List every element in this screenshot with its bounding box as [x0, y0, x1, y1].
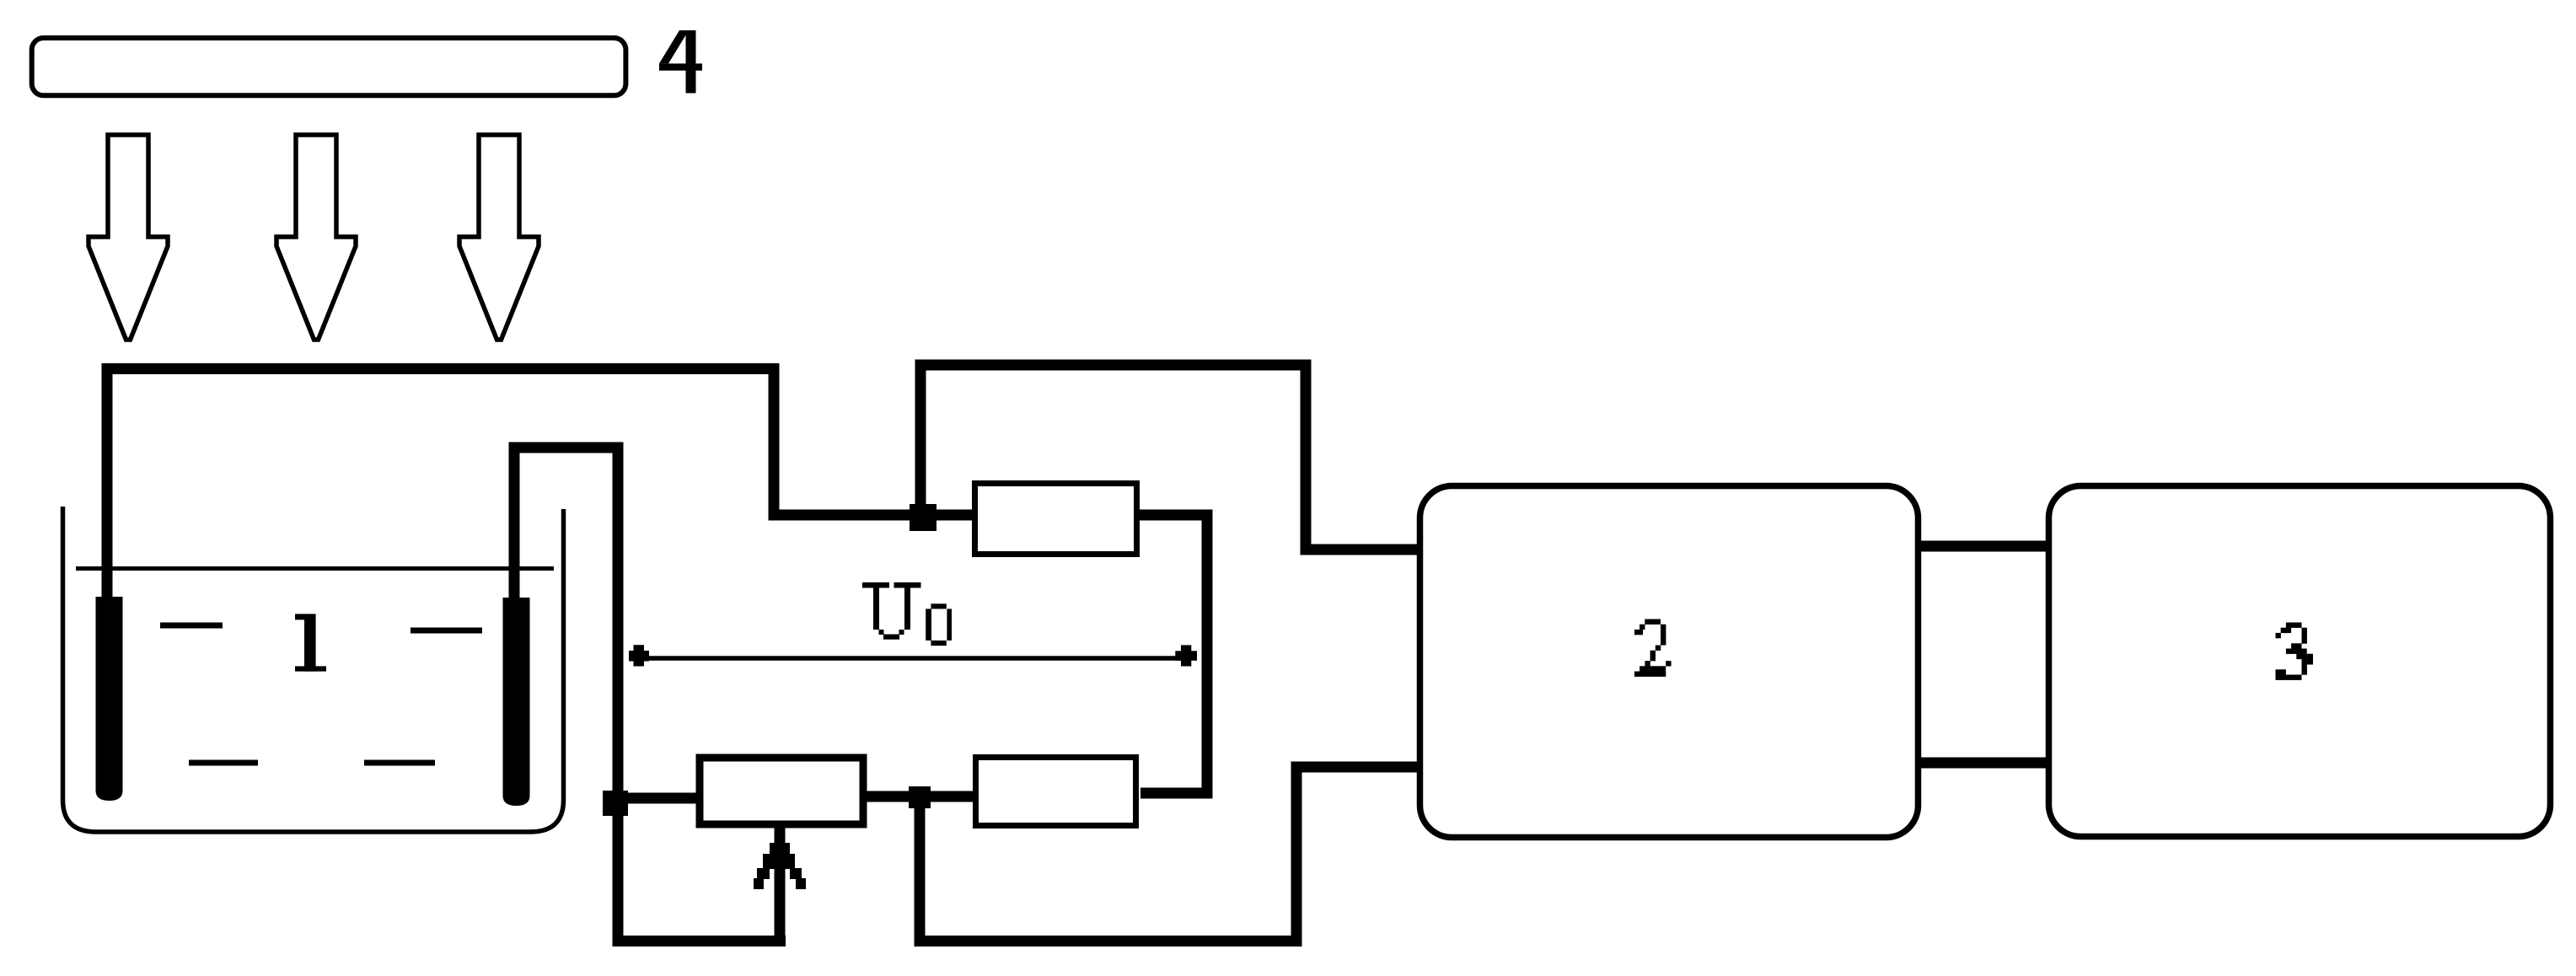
- wire: potentiometer left lead: [618, 793, 700, 804]
- junction node J1: [910, 504, 936, 531]
- junction node J3: [603, 791, 628, 816]
- wire: left electrode up, across top, down, to node J1 and resistor R1: [107, 369, 973, 601]
- label 1: [295, 614, 326, 671]
- liquid dash upper-right: [411, 628, 482, 634]
- wire: potentiometer right lead through node J2 to R2: [863, 791, 976, 802]
- liquid dash upper-left: [160, 623, 223, 629]
- liquid surface line: [76, 566, 554, 571]
- wire: node J1 riser, top run, down into box 2 upper input: [920, 365, 1420, 550]
- potentiometer wiper arrow: [754, 828, 806, 947]
- label U0 (blocky strokes): [862, 582, 952, 646]
- wire: box 2 to box 3 upper link: [1918, 541, 2049, 552]
- vessel 1 (electrolytic cell beaker): [63, 507, 564, 832]
- label 3: [2276, 623, 2314, 680]
- box 2 (amplifier unit): [1420, 486, 1919, 838]
- light arrow 2: [276, 135, 356, 340]
- label 4: [659, 30, 702, 94]
- liquid dash lower-right: [364, 760, 435, 766]
- box 3 (recorder unit): [2049, 486, 2551, 837]
- dimension end dot left: [629, 645, 649, 666]
- light arrow 3: [459, 135, 539, 340]
- resistor R2 (lower): [976, 758, 1136, 826]
- light arrow 1: [89, 135, 168, 340]
- wire: right electrode up, across, down left side to bottom run, to potentiometer arrow stem: [514, 448, 786, 941]
- wire: R1 right lead down to R2 right lead: [1138, 515, 1207, 793]
- resistor R1 (upper): [975, 484, 1137, 555]
- electrode right (anode): [503, 598, 530, 806]
- liquid dash lower-left: [189, 760, 258, 766]
- junction node J2: [909, 786, 931, 808]
- wire: node J2 down, bottom run right, riser, into box 2 lower input: [920, 767, 1420, 941]
- dimension end dot right: [1175, 645, 1197, 666]
- potentiometer (variable resistor): [700, 758, 863, 824]
- lamp 4 (light source tube): [32, 38, 626, 95]
- wire: box 2 to box 3 lower link: [1918, 758, 2049, 769]
- label 2: [1634, 619, 1672, 677]
- electrode left (cathode): [96, 597, 123, 801]
- dimension line U0: [638, 656, 1186, 661]
